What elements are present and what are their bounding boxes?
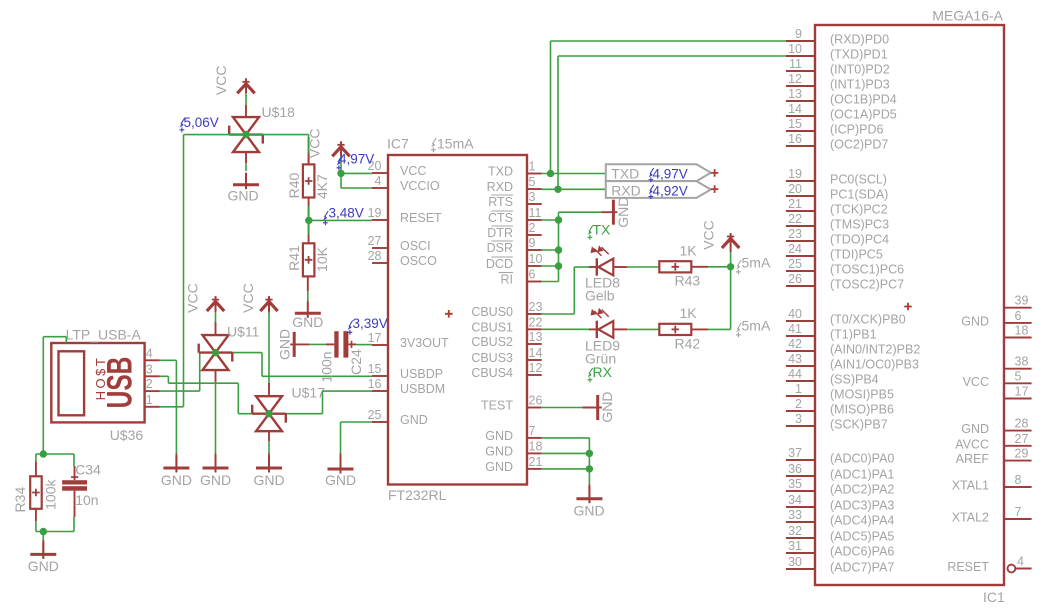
MEGA16 pin 23 (TDO)PC4 xyxy=(786,240,815,242)
svg-text:GND: GND xyxy=(227,188,258,204)
MEGA16 pin 10 (TXD)PD1 xyxy=(786,55,815,57)
svg-text:R42: R42 xyxy=(675,336,701,352)
svg-text:DSR: DSR xyxy=(487,241,513,255)
svg-text:43: 43 xyxy=(788,352,802,366)
LED8 xyxy=(589,266,597,268)
USB pin 3 xyxy=(145,375,160,377)
svg-text:GND: GND xyxy=(961,422,989,436)
wire net TXD vertical xyxy=(550,41,552,174)
resistor R43 xyxy=(659,261,691,272)
FT232 pin 4 VCCIO xyxy=(372,187,388,189)
svg-text:USBDM: USBDM xyxy=(400,382,445,396)
flag origin cross RXD xyxy=(711,185,719,193)
FT232 pin 5 RXD xyxy=(527,188,542,190)
svg-text:17: 17 xyxy=(368,331,382,345)
svg-text:6: 6 xyxy=(1015,309,1022,323)
svg-text:PC0(SCL): PC0(SCL) xyxy=(830,173,887,187)
wire C24 left xyxy=(309,343,326,345)
svg-text:U$36: U$36 xyxy=(110,427,144,443)
svg-text:21: 21 xyxy=(529,455,543,469)
FT232 pin 1 TXD xyxy=(527,173,542,175)
svg-text:C34: C34 xyxy=(75,461,101,477)
wire down to U$17 xyxy=(237,383,239,414)
ground (C24) rotated xyxy=(290,343,309,345)
resistor R41 xyxy=(308,198,310,244)
svg-text:32: 32 xyxy=(788,524,802,538)
LED9 xyxy=(589,328,597,330)
svg-text:LTP_USB-A: LTP_USB-A xyxy=(66,326,142,342)
MEGA16 pin 12 (INT1)PD3 xyxy=(786,85,815,87)
IC U1 MEGA16-A box xyxy=(815,25,1004,585)
wire RI xyxy=(542,281,559,283)
svg-text:R41: R41 xyxy=(286,245,302,271)
svg-text:USB: USB xyxy=(101,357,139,409)
wire C34 bottom xyxy=(73,517,75,532)
svg-text:34: 34 xyxy=(788,493,802,507)
svg-text:(ADC0)PA0: (ADC0)PA0 xyxy=(830,452,894,466)
svg-text:24: 24 xyxy=(788,242,802,256)
MEGA16 pin 9 (RXD)PD0 xyxy=(786,40,815,42)
wire VCC to U$18 xyxy=(245,93,247,105)
MEGA16 pin 30 (ADC7)PA7 xyxy=(786,568,815,570)
USB pin 2 xyxy=(145,390,160,392)
svg-text:CBUS0: CBUS0 xyxy=(471,305,513,319)
svg-text:35: 35 xyxy=(788,477,802,491)
svg-text:4: 4 xyxy=(375,174,382,188)
svg-text:19: 19 xyxy=(368,206,382,220)
svg-text:3: 3 xyxy=(529,190,536,204)
svg-text:GND: GND xyxy=(277,329,293,360)
ground below R41 xyxy=(307,276,309,291)
voltage probe 4,97V xyxy=(337,156,342,170)
svg-text:CBUS2: CBUS2 xyxy=(471,335,513,349)
svg-text:100k: 100k xyxy=(43,479,59,510)
voltage probe 3,39V xyxy=(348,321,353,335)
FT232 pin 22 CBUS1 xyxy=(527,328,542,330)
IC7 FT232RL box xyxy=(388,155,527,485)
MEGA16 pin 43 (AIN1/OC0)PB3 xyxy=(786,365,815,367)
svg-text:26: 26 xyxy=(529,394,543,408)
svg-text:(ADC3)PA3: (ADC3)PA3 xyxy=(830,499,894,513)
svg-text:30: 30 xyxy=(788,555,802,569)
USB connector inner contact xyxy=(59,351,85,415)
svg-text:20: 20 xyxy=(788,182,802,196)
wire to GND flag xyxy=(559,211,602,213)
wire net RXD vertical xyxy=(557,56,559,189)
FT232 pin 28 OSCO xyxy=(372,262,388,264)
svg-text:10: 10 xyxy=(788,42,802,56)
wire USBDP to pin15 xyxy=(262,375,372,377)
wire RXD to flag xyxy=(542,188,606,190)
junction U$17 center xyxy=(265,410,272,417)
voltage probe 3,48V xyxy=(323,211,328,225)
svg-text:RTS: RTS xyxy=(488,195,513,209)
wire DCD xyxy=(542,265,559,267)
VCC supply arrow (LEDs) xyxy=(722,233,739,248)
svg-text:36: 36 xyxy=(788,462,802,476)
svg-text:XTAL1: XTAL1 xyxy=(952,479,989,493)
FT232 pin 9 DSR xyxy=(527,249,542,251)
wire through U$11 center xyxy=(200,352,262,354)
suppressor diode U$17 xyxy=(268,383,270,396)
MEGA16 pin 26 (TOSC2)PC7 xyxy=(786,285,815,287)
svg-text:PC1(SDA): PC1(SDA) xyxy=(830,188,888,202)
wire R40-R41 net xyxy=(308,206,310,235)
wire shield horizontal xyxy=(43,336,66,338)
svg-text:10K: 10K xyxy=(314,246,330,272)
svg-text:11: 11 xyxy=(529,206,542,220)
svg-text:CBUS4: CBUS4 xyxy=(471,366,513,380)
wire CTS xyxy=(542,219,559,221)
svg-text:16: 16 xyxy=(788,132,802,146)
svg-text:12: 12 xyxy=(788,72,802,86)
svg-text:22: 22 xyxy=(788,212,802,226)
MEGA16 pin 25 (TOSC1)PC6 xyxy=(786,270,815,272)
FT232 pin 2 DTR xyxy=(527,234,542,236)
MEGA16 pin 7 XTAL2 xyxy=(1004,518,1032,520)
svg-text:31: 31 xyxy=(788,539,802,553)
svg-text:GND: GND xyxy=(325,472,356,488)
svg-text:1: 1 xyxy=(795,382,802,396)
svg-text:GND: GND xyxy=(161,472,192,488)
svg-text:12: 12 xyxy=(529,361,543,375)
wire R43 to VCC xyxy=(708,266,731,268)
svg-text:(TDO)PC4: (TDO)PC4 xyxy=(830,233,889,247)
net flag RXD xyxy=(606,181,711,198)
ground (modem tie) rotated xyxy=(601,211,617,213)
svg-text:VCC: VCC xyxy=(400,164,426,178)
wire GND pin7 xyxy=(542,437,590,439)
MEGA16 pin 15 (ICP)PD6 xyxy=(786,130,815,132)
wire U$18 bottom to GND xyxy=(245,152,247,163)
svg-text:AREF: AREF xyxy=(956,452,990,466)
wire R34/C34 top xyxy=(36,453,74,455)
USB pin 1 xyxy=(145,406,160,408)
svg-text:29: 29 xyxy=(1015,447,1029,461)
wire GND vertical xyxy=(588,438,590,485)
svg-text:(ADC1)PA1: (ADC1)PA1 xyxy=(830,468,894,482)
svg-text:9: 9 xyxy=(795,27,802,41)
wire pin25 GND xyxy=(341,421,373,423)
wire to GND xyxy=(42,532,44,541)
svg-text:(INT1)PD3: (INT1)PD3 xyxy=(830,78,890,92)
FT232 pin 26 TEST xyxy=(527,407,542,409)
svg-text:FT232RL: FT232RL xyxy=(388,487,447,503)
junction U$11 center xyxy=(212,349,219,356)
wire C24 to 3V3OUT xyxy=(356,344,372,346)
wire GND pin18 xyxy=(542,452,590,454)
wire VCC to U$11 xyxy=(215,313,217,322)
svg-text:RX: RX xyxy=(593,364,613,380)
MEGA16 pin 20 PC1(SDA) xyxy=(786,195,815,197)
wire VCC down xyxy=(730,252,732,267)
MEGA16 pin 2 (MISO)PB6 xyxy=(786,410,815,412)
FT232 pin 15 USBDP xyxy=(372,375,388,377)
FT232 pin 20 VCC xyxy=(372,172,388,174)
wire modem tie vertical xyxy=(558,212,560,281)
svg-text:XTAL2: XTAL2 xyxy=(952,511,989,525)
MEGA16 pin 5 VCC xyxy=(1004,382,1032,384)
svg-text:18: 18 xyxy=(1015,324,1029,338)
VCC supply arrow (U$17) xyxy=(260,296,277,311)
wire to LED8 xyxy=(574,266,590,268)
svg-text:GND: GND xyxy=(485,444,513,458)
MEGA16 pin 21 (TCK)PC2 xyxy=(786,210,815,212)
resistor R40 xyxy=(308,137,310,164)
VCC supply arrow (FT232 VCC) xyxy=(332,141,349,156)
wire DSR xyxy=(542,249,559,251)
svg-text:2: 2 xyxy=(795,397,802,411)
svg-text:15: 15 xyxy=(788,117,802,131)
svg-text:5,06V: 5,06V xyxy=(184,115,219,130)
MEGA16 pin 38 xyxy=(1004,368,1032,370)
wire CBUS1 to LED9 xyxy=(542,328,590,330)
svg-text:MEGA16-A: MEGA16-A xyxy=(932,8,1003,24)
svg-text:(OC1A)PD5: (OC1A)PD5 xyxy=(830,108,897,122)
svg-text:4: 4 xyxy=(1017,555,1024,569)
suppressor diode U$11 xyxy=(215,322,217,336)
wire CBUS0 up xyxy=(573,267,575,314)
MEGA16 pin 11 (INT0)PD2 xyxy=(786,70,815,72)
FT232 pin 21 GND xyxy=(527,468,542,470)
MEGA16 pin 3 (SCK)PB7 xyxy=(786,425,815,427)
VCC supply arrow (U$11) xyxy=(207,296,224,311)
FT232 pin 12 CBUS4 xyxy=(527,374,542,376)
junction R34 bottom xyxy=(40,528,47,535)
MEGA16 pin 8 XTAL1 xyxy=(1004,486,1032,488)
wire USBDM up xyxy=(322,391,324,414)
svg-text:2: 2 xyxy=(146,377,153,391)
FT232 pin 7 GND xyxy=(527,437,542,439)
wire USBDM to pin16 xyxy=(323,390,373,392)
svg-text:(INT0)PD2: (INT0)PD2 xyxy=(830,63,890,77)
FT232 origin cross + xyxy=(445,310,453,318)
svg-text:AVCC: AVCC xyxy=(955,437,989,451)
junction DCD xyxy=(555,262,562,269)
suppressor diode U$18 xyxy=(245,105,247,117)
svg-text:GND: GND xyxy=(28,558,59,574)
svg-text:GND: GND xyxy=(200,472,231,488)
svg-text:GND: GND xyxy=(599,391,615,422)
MEGA16 pin 40 (T0/XCK)PB0 xyxy=(786,320,815,322)
svg-text:39: 39 xyxy=(1015,294,1029,308)
svg-text:GND: GND xyxy=(485,460,513,474)
wire to VCCIO pin4 xyxy=(341,187,372,189)
current probe 5mA xyxy=(736,323,741,337)
svg-text:DCD: DCD xyxy=(486,257,513,271)
FT232 pin 13 CBUS2 xyxy=(527,343,542,345)
MEGA16 pin 24 (TDI)PC5 xyxy=(786,255,815,257)
svg-text:GND: GND xyxy=(292,314,323,330)
svg-text:VCCIO: VCCIO xyxy=(400,179,440,193)
wire RESET net to pin19 xyxy=(309,219,372,221)
svg-text:5mA: 5mA xyxy=(742,318,771,334)
wire USB pin1 VBUS xyxy=(160,406,184,408)
svg-text:(TOSC1)PC6: (TOSC1)PC6 xyxy=(830,263,904,277)
svg-text:(RXD)PD0: (RXD)PD0 xyxy=(830,33,889,47)
MEGA16 pin 37 (ADC0)PA0 xyxy=(786,459,815,461)
wire TXD to flag xyxy=(542,173,606,175)
svg-text:40: 40 xyxy=(788,307,802,321)
svg-text:41: 41 xyxy=(788,322,802,336)
MEGA16 pin 28 GND xyxy=(1004,430,1032,432)
net flag TXD xyxy=(606,164,711,181)
FT232 pin 10 DCD xyxy=(527,265,542,267)
svg-text:26: 26 xyxy=(788,272,802,286)
svg-text:USBDP: USBDP xyxy=(400,367,443,381)
junction GND xyxy=(586,465,593,472)
svg-text:16: 16 xyxy=(368,377,382,391)
svg-text:Gelb: Gelb xyxy=(585,288,615,304)
wire U$18 to GND xyxy=(245,163,247,171)
svg-text:(TOSC2)PC7: (TOSC2)PC7 xyxy=(830,278,904,292)
svg-text:9: 9 xyxy=(529,236,536,250)
probe RX xyxy=(588,368,593,382)
FT232 pin 3 RTS xyxy=(527,203,542,205)
probe TX xyxy=(588,226,593,240)
svg-text:4K7: 4K7 xyxy=(314,174,330,199)
wire R42 to VCC net xyxy=(708,328,731,330)
svg-text:38: 38 xyxy=(1015,355,1029,369)
MEGA16 pin 32 (ADC5)PA5 xyxy=(786,537,815,539)
FT232 pin 17 3V3OUT xyxy=(372,344,388,346)
FT232 pin 19 RESET xyxy=(372,219,388,221)
svg-text:14: 14 xyxy=(788,102,802,116)
svg-text:22: 22 xyxy=(529,315,543,329)
svg-text:8: 8 xyxy=(1015,473,1022,487)
svg-text:15mA: 15mA xyxy=(437,136,474,152)
svg-text:R43: R43 xyxy=(675,273,701,289)
wire up to U$11 xyxy=(199,353,201,392)
MEGA16 pin 27 AVCC xyxy=(1004,445,1032,447)
MEGA16 pin 29 AREF xyxy=(1004,460,1032,462)
svg-text:OSCI: OSCI xyxy=(400,239,431,253)
ground (FT232 pin25) xyxy=(328,457,354,474)
FT232 pin 16 USBDM xyxy=(372,390,388,392)
svg-text:(TCK)PC2: (TCK)PC2 xyxy=(830,203,888,217)
wire VCC to U$17 xyxy=(268,313,270,383)
wire VCC to R42 net xyxy=(730,267,732,330)
svg-text:R34: R34 xyxy=(12,487,28,513)
svg-text:GND: GND xyxy=(961,314,989,328)
svg-text:33: 33 xyxy=(788,508,802,522)
MEGA16 pin 16 (OC2)PD7 xyxy=(786,145,815,147)
junction TXD xyxy=(547,170,554,177)
svg-text:2: 2 xyxy=(529,221,536,235)
svg-text:10: 10 xyxy=(529,252,543,266)
FT232 pin 18 GND xyxy=(527,452,542,454)
svg-text:CBUS1: CBUS1 xyxy=(471,320,513,334)
wire LED8 to R43 xyxy=(627,266,659,268)
svg-text:(TXD)PD1: (TXD)PD1 xyxy=(830,48,888,62)
svg-text:1: 1 xyxy=(146,393,153,407)
svg-text:6: 6 xyxy=(529,268,536,282)
MEGA16 pin 36 (ADC1)PA1 xyxy=(786,475,815,477)
MEGA16 pin 35 (ADC2)PA2 xyxy=(786,490,815,492)
junction VCC/pin20 xyxy=(337,170,344,177)
svg-text:TEST: TEST xyxy=(481,399,513,413)
MEGA16 pin 41 (T1)PB1 xyxy=(786,335,815,337)
MEGA16 pin 1 (MOSI)PB5 xyxy=(786,395,815,397)
svg-text:OSCO: OSCO xyxy=(400,254,437,268)
svg-text:(MISO)PB6: (MISO)PB6 xyxy=(830,403,894,417)
svg-text:100n: 100n xyxy=(319,351,335,382)
MEGA16 pin 22 (TMS)PC3 xyxy=(786,225,815,227)
junction GND xyxy=(586,450,593,457)
svg-text:IC7: IC7 xyxy=(387,136,409,152)
svg-text:(TMS)PC3: (TMS)PC3 xyxy=(830,218,889,232)
MEGA16 pin 31 (ADC6)PA6 xyxy=(786,552,815,554)
svg-text:R40: R40 xyxy=(286,172,302,198)
ground (USB pin4) xyxy=(163,456,189,473)
wire VBUS net horizontal U$18 xyxy=(184,134,309,136)
svg-text:(T1)PB1: (T1)PB1 xyxy=(830,328,877,342)
current probe 5mA xyxy=(736,260,741,274)
FT232 pin 23 CBUS0 xyxy=(527,313,542,315)
ground (TEST) rotated xyxy=(582,407,601,409)
svg-text:14: 14 xyxy=(529,346,543,360)
junction R34 top xyxy=(40,450,47,457)
wire VBUS long vertical xyxy=(183,135,185,407)
svg-text:19: 19 xyxy=(788,167,802,181)
junction CTS xyxy=(555,216,562,223)
svg-text:(OC1B)PD4: (OC1B)PD4 xyxy=(830,93,897,107)
svg-text:TX: TX xyxy=(593,222,612,238)
wire to C34 top xyxy=(73,454,75,466)
wire pin3 jog down xyxy=(167,376,169,383)
svg-text:IC1: IC1 xyxy=(983,589,1005,605)
MEGA16 pin 14 (OC1A)PD5 xyxy=(786,115,815,117)
ground below U$18 xyxy=(233,173,259,190)
wire VCC arrow to pins xyxy=(340,156,342,188)
MEGA16 pin 19 PC0(SCL) xyxy=(786,180,815,182)
wire to R34 top xyxy=(35,454,37,462)
wire net TXD to PD0 xyxy=(551,40,787,42)
svg-text:(ADC4)PA4: (ADC4)PA4 xyxy=(830,514,894,528)
svg-text:GND: GND xyxy=(253,472,284,488)
junction U$18 center xyxy=(242,131,249,138)
svg-text:(ADC2)PA2: (ADC2)PA2 xyxy=(830,483,894,497)
wire pin25 GND down xyxy=(340,422,342,454)
svg-text:3,48V: 3,48V xyxy=(329,206,364,221)
svg-text:7: 7 xyxy=(529,424,536,438)
svg-text:5: 5 xyxy=(1015,369,1022,383)
junction VCC/R43 xyxy=(727,263,734,270)
svg-text:VCC: VCC xyxy=(240,283,256,313)
MEGA16 pin 44 (SS)PB4 xyxy=(786,380,815,382)
svg-text:(AIN1/OC0)PB3: (AIN1/OC0)PB3 xyxy=(830,358,919,372)
junction RESET divider xyxy=(305,217,312,224)
svg-text:11: 11 xyxy=(789,57,802,71)
svg-text:GND: GND xyxy=(615,197,631,228)
svg-text:RI: RI xyxy=(501,273,514,287)
svg-text:1K: 1K xyxy=(680,243,698,259)
name origin cross + xyxy=(904,303,912,311)
wire U$11 to GND xyxy=(215,382,217,454)
svg-text:27: 27 xyxy=(1015,432,1029,446)
svg-text:3: 3 xyxy=(146,362,153,376)
svg-text:(OC2)PD7: (OC2)PD7 xyxy=(830,138,888,152)
ground (U$17) xyxy=(256,456,282,473)
svg-text:(ICP)PD6: (ICP)PD6 xyxy=(830,123,884,137)
svg-text:44: 44 xyxy=(788,367,802,381)
voltage probe 5,06V xyxy=(180,118,185,132)
wire shield down xyxy=(42,337,44,454)
MEGA16 pin 13 (OC1B)PD4 xyxy=(786,100,815,102)
wire USB shield up xyxy=(65,337,67,343)
svg-text:C24: C24 xyxy=(348,349,364,375)
wire pin3 jog horizontal xyxy=(168,382,238,384)
